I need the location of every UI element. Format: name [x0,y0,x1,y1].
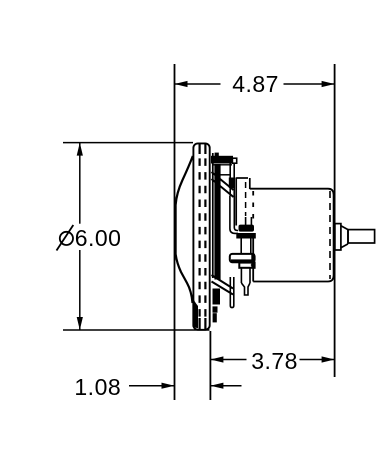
bottom screw collar [230,254,255,262]
arrow left 4.87 [175,81,188,87]
dimension 6.00 vertical line [79,143,81,224]
flange rim line B solid bottom [204,318,206,329]
dia 6.00 top extension line [63,142,193,144]
shaft taper [341,226,348,248]
bottom screw taper tip [241,283,250,295]
flange rim line A dashed [199,158,201,318]
arrow right 4.87 [322,81,335,87]
motor body can [250,189,334,282]
bottom screw nut band 1 [239,225,255,232]
arrow right into wall line 1.08 [162,383,175,389]
neck front edge [235,178,237,226]
lens flange (rounded rect) [193,143,209,329]
neck corner step [249,178,251,189]
bottom diagonal strap [212,275,234,295]
svg-text:6.00: 6.00 [75,225,122,251]
flange rim line A solid top [199,144,201,154]
top diagonal strap [212,172,234,197]
1.08 outside tail right [210,385,241,387]
top bracket lines under bar [212,164,232,166]
dia 6.00 bottom extension line [63,329,210,331]
lens dome lower fill [192,296,198,328]
lens dome profile [176,156,193,303]
neck top edge [236,177,248,179]
bottom screw nut band 2 [236,233,256,239]
top screw nub [232,158,236,163]
flange rim line A solid bottom [199,318,201,329]
label diameter symbol [60,232,73,245]
body front hidden dashed upper [252,191,254,225]
arrow right 3.78 [322,356,335,362]
arrow left 3.78 [210,356,223,362]
shaft [348,230,375,243]
arrow left into flange line 1.08 [210,383,223,389]
right extension line (back of body) [334,64,336,377]
bottom screw cylinder upper [240,239,242,254]
dimension 3.78 line [210,359,246,361]
svg-text:3.78: 3.78 [251,348,298,374]
top screw shank [229,164,231,197]
dimension 1.08 leader line [129,385,175,387]
bottom clamp rod elbow [230,196,238,233]
svg-text:1.08: 1.08 [74,374,121,400]
wall extension line (left of 4.87 / right of 1.08) [174,64,176,400]
dimension 4.87 line [175,83,221,85]
neck hidden dashed line [245,182,247,216]
svg-text:4.87: 4.87 [232,71,279,97]
top clamp screw bar [211,156,233,164]
bracket column [214,164,220,280]
bottom screw rod visible [245,217,247,226]
top shank dark foot [229,178,235,189]
body hidden dashed back line [329,191,331,279]
body front edge [252,239,254,282]
flange-back extension line (3.78 / 1.08) [209,331,211,400]
arrow up 6.00 [77,143,83,156]
bottom thin pin [230,277,234,308]
shaft boss [335,224,341,250]
body front edge tick [251,264,253,266]
flange rim line B dashed [204,158,206,318]
arrow down 6.00 [77,317,83,330]
bottom screw cylinder lower [240,268,242,283]
bottom block on flange back [213,289,221,305]
flange rim line B solid top [204,144,206,154]
top screw head bump [215,153,219,157]
backing plate line [212,153,214,278]
small clip below flange [213,313,217,322]
